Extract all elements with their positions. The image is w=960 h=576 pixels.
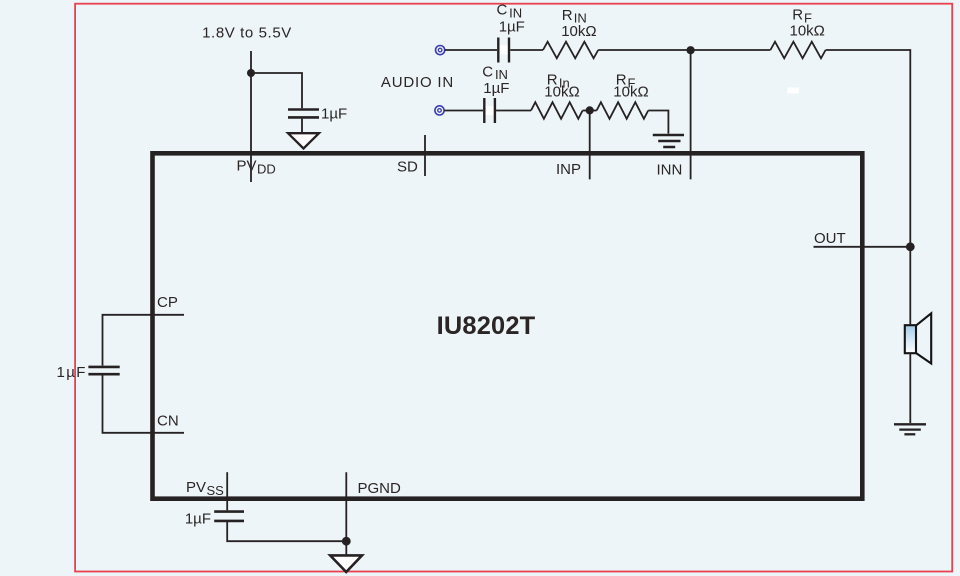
svg-text:PGND: PGND [358,480,402,497]
node INP junction [586,106,594,114]
svg-text:10kΩ: 10kΩ [790,23,825,40]
wire RF to right rail [826,50,911,324]
capacitor C CP-CN 1uF plates [88,366,119,369]
node PGND junction [342,537,351,546]
wire RIn to INP node [583,110,597,112]
svg-text:CN: CN [157,412,179,429]
wire cap to ground [301,119,303,133]
capacitor C bypass 1uF plates [288,108,319,111]
ground (triangle, PVDD bypass) [288,133,319,148]
pin OUT wire [814,246,911,248]
pin CP wire [103,315,185,366]
capacitor CIN (bottom) plates [486,106,494,115]
capacitor CIN (top) plates [500,46,508,55]
wire J2 to CIN2 [444,110,483,112]
svg-text:1.8V to 5.5V: 1.8V to 5.5V [202,25,292,42]
resistor RIN [543,42,598,59]
wire INN node to RF [691,49,771,51]
wire J1 to CIN [445,49,497,51]
wire RIN to INN node [598,49,690,51]
svg-text:SD: SD [397,159,418,176]
svg-text:10kΩ: 10kΩ [561,23,596,40]
wire PVSS cap to PGND node [227,522,346,541]
ground (triangle, PGND) [330,555,362,572]
svg-text:1µF: 1µF [483,80,509,97]
wire CIN2 to RIn [496,110,531,112]
pin PVSS stub [226,472,228,510]
svg-text:1µF: 1µF [185,510,211,527]
ground (bars, RF2) [653,134,684,137]
node PVDD junction [247,69,255,77]
white patch artifact [787,88,799,94]
svg-text:10kΩ: 10kΩ [613,83,648,100]
wire INN pin stub [690,50,692,179]
pin PGND stub [345,472,347,555]
pin SD stub [424,135,426,176]
svg-text:AUDIO IN: AUDIO IN [381,74,454,91]
svg-text:INP: INP [556,161,581,178]
wire junction to bypass cap [251,73,302,108]
wire CIN to RIN [510,49,543,51]
svg-text:1µF: 1µF [321,106,347,123]
svg-text:1µF: 1µF [499,19,525,36]
connector J1 (top audio input) [436,46,445,55]
resistor RF2 (to ground) [597,102,649,119]
IC body U1 IU8202T [153,153,863,498]
pin CN wire [103,376,185,433]
svg-text:OUT: OUT [814,230,846,247]
svg-text:1µF: 1µF [57,364,87,381]
capacitor C PVSS 1uF plates [214,510,244,513]
ground (bars, speaker) [894,423,926,425]
wire PVDD vertical [250,51,252,182]
wire RF2 to ground [648,111,668,134]
node INN junction [687,46,695,54]
resistor RIn [531,102,583,119]
resistor RF (feedback) [770,42,825,59]
svg-text:10kΩ: 10kΩ [544,83,579,100]
wire INP pin stub [589,111,591,180]
wire speaker to ground [909,353,911,423]
connector J2 (bottom audio input) [435,106,444,115]
speaker LS1 [905,325,916,353]
svg-text:IU8202T: IU8202T [437,312,536,340]
svg-text:CP: CP [157,294,178,311]
svg-text:INN: INN [657,162,683,179]
node OUT junction [906,242,915,251]
